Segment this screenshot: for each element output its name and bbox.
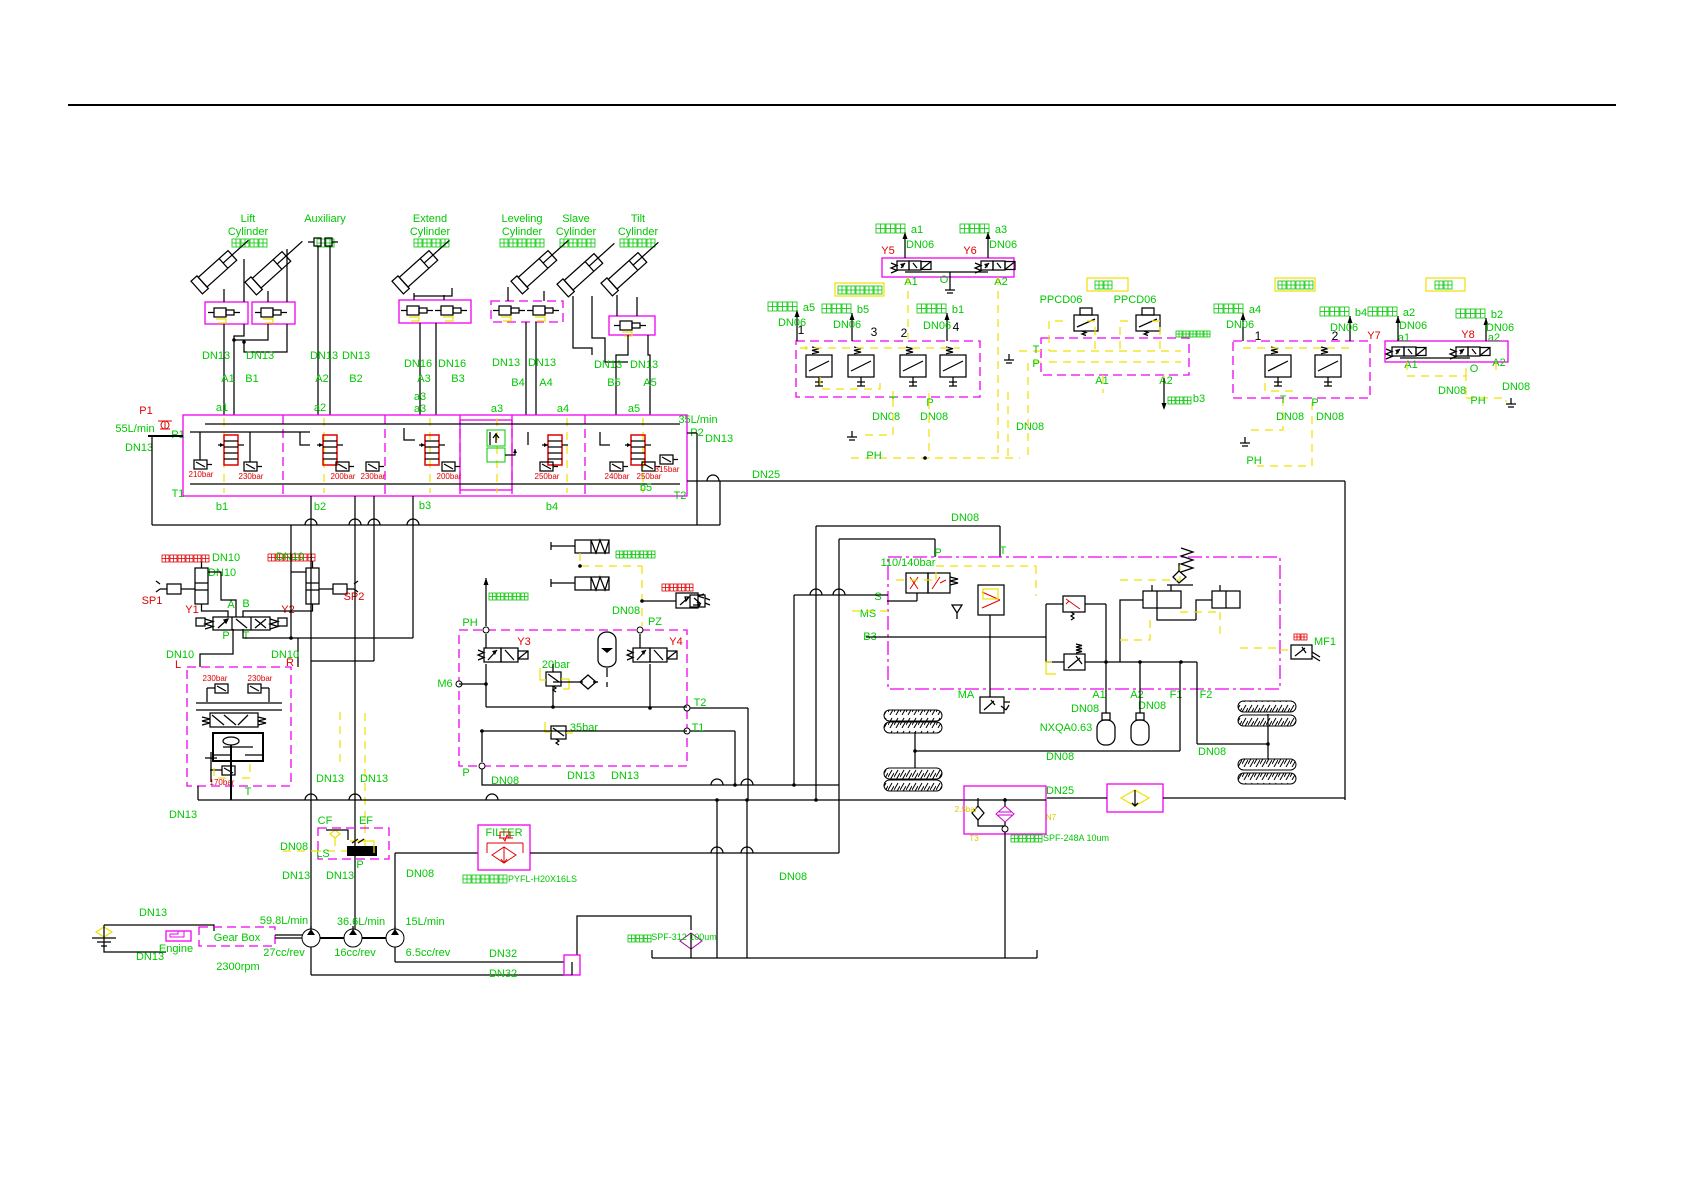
- solenoid Y6: [981, 261, 993, 270]
- prop valve 4: [940, 355, 966, 377]
- svg-text:DN10: DN10: [212, 552, 240, 564]
- svg-text:A1: A1: [904, 276, 917, 288]
- P1 inlet symbol: [158, 421, 172, 429]
- svg-text:b3: b3: [419, 500, 431, 512]
- MA test valve: [980, 697, 1004, 713]
- accumulator A1: [1102, 713, 1110, 720]
- svg-text:a3: a3: [995, 224, 1007, 236]
- svg-text:M6: M6: [437, 678, 452, 690]
- svg-text:PPCD06: PPCD06: [1114, 294, 1157, 306]
- svg-text:FILTER: FILTER: [485, 827, 522, 839]
- svg-text:a4: a4: [1249, 304, 1261, 316]
- svg-text:2.5bar: 2.5bar: [955, 805, 978, 814]
- svg-text:DN13: DN13: [125, 442, 153, 454]
- clutch pistons and spring: [1167, 563, 1193, 585]
- svg-text:DN06: DN06: [833, 319, 861, 331]
- transmission reliefs: [1063, 596, 1085, 612]
- svg-text:MS: MS: [860, 608, 877, 620]
- label CJK tilt: [620, 239, 628, 247]
- slave cylinder: [557, 237, 620, 296]
- label second stage valve: [1176, 331, 1182, 337]
- Y7Y8 yellow drains: [1407, 362, 1496, 398]
- svg-text:210bar: 210bar: [189, 470, 214, 479]
- yellow label box attachment: [1426, 278, 1465, 291]
- svg-text:Leveling: Leveling: [502, 213, 543, 225]
- DN08 brake line right: [1197, 743, 1268, 745]
- svg-text:Cylinder: Cylinder: [410, 226, 451, 238]
- svg-text:250bar: 250bar: [535, 472, 560, 481]
- svg-text:b1: b1: [952, 304, 964, 316]
- svg-text:A5: A5: [643, 377, 656, 389]
- brake valve box: [459, 630, 687, 766]
- svg-text:DN08: DN08: [1016, 421, 1044, 433]
- steering cylinder right: [306, 568, 319, 604]
- leveling cylinder: [511, 234, 574, 293]
- svg-text:A2: A2: [315, 373, 328, 385]
- svg-text:T: T: [1280, 394, 1287, 406]
- steering supply drop: [290, 525, 292, 638]
- svg-text:T: T: [243, 630, 250, 642]
- return drop A: [716, 800, 718, 958]
- svg-text:Y2: Y2: [281, 604, 294, 616]
- mid section green component: [487, 430, 505, 446]
- svg-text:O: O: [1470, 363, 1479, 375]
- prop valve 1: [806, 355, 832, 377]
- svg-text:DN13: DN13: [567, 770, 595, 782]
- pump 2: [344, 929, 362, 947]
- svg-text:T2: T2: [674, 490, 687, 502]
- wire lift A1/B1: [223, 289, 225, 302]
- modulating valve pair red: [906, 573, 950, 593]
- label rear steer cyl CJK red: [162, 555, 169, 562]
- steering T line: [373, 496, 375, 661]
- cluster internal yellow wiring: [805, 346, 807, 350]
- shift selector valve: [978, 585, 1004, 615]
- svg-text:A2: A2: [1159, 375, 1172, 387]
- svg-text:F2: F2: [1200, 689, 1213, 701]
- P/T lines down from steering valve: [200, 629, 233, 667]
- svg-text:110/140bar: 110/140bar: [881, 557, 936, 569]
- Y4 valve: [633, 648, 650, 662]
- svg-text:T2: T2: [694, 697, 707, 709]
- steering block magenta box: [187, 667, 291, 786]
- SP2 shuttle glyph: [324, 581, 358, 594]
- LS yellow line: [283, 850, 318, 852]
- upper feed rectangle: [816, 525, 1000, 527]
- svg-text:a2: a2: [314, 402, 326, 414]
- svg-text:Y6: Y6: [963, 245, 976, 257]
- svg-text:N7: N7: [1046, 813, 1057, 822]
- svg-text:DN06: DN06: [1486, 322, 1514, 334]
- svg-text:a5: a5: [803, 302, 815, 314]
- yellow label box frame leveling: [1275, 278, 1315, 291]
- accumulator small: [598, 632, 616, 667]
- svg-text:35L/min: 35L/min: [678, 414, 717, 426]
- svg-text:MF1: MF1: [1314, 636, 1336, 648]
- brake cylinders: [575, 540, 609, 553]
- extend cylinder: [392, 234, 455, 293]
- svg-text:20bar: 20bar: [542, 659, 570, 671]
- svg-text:P1: P1: [139, 405, 152, 417]
- engine box: [166, 931, 191, 941]
- svg-text:36.6L/min: 36.6L/min: [337, 916, 385, 928]
- wheels right: [1238, 701, 1296, 712]
- svg-text:DN06: DN06: [923, 320, 951, 332]
- svg-text:230bar: 230bar: [239, 472, 264, 481]
- label CJK leveling: [500, 239, 508, 247]
- brake internal wiring: [485, 634, 487, 648]
- svg-text:DN08: DN08: [951, 512, 979, 524]
- svg-text:A1: A1: [1404, 359, 1417, 371]
- steering R line: [412, 496, 414, 638]
- svg-text:a1: a1: [911, 224, 923, 236]
- small check: [952, 605, 962, 619]
- accumulator A2: [1136, 713, 1144, 720]
- ports A1 A2 F1 F2: [1085, 661, 1197, 663]
- FILTER box: [478, 825, 530, 870]
- priority spool: [210, 713, 258, 727]
- brake P DN08 and T lines: [482, 769, 839, 785]
- svg-text:b1: b1: [216, 501, 228, 513]
- svg-text:B3: B3: [451, 373, 464, 385]
- svg-text:DN13: DN13: [705, 433, 733, 445]
- section relief valves (small): [194, 460, 207, 469]
- svg-text:DN08: DN08: [1071, 703, 1099, 715]
- DN08 brake line left: [915, 750, 1180, 752]
- svg-text:DN13: DN13: [169, 809, 197, 821]
- svg-text:SPF-312 100um: SPF-312 100um: [651, 932, 717, 942]
- svg-text:SP2: SP2: [344, 591, 365, 603]
- svg-text:b4: b4: [1355, 307, 1367, 319]
- svg-text:Y7: Y7: [1367, 330, 1380, 342]
- label suction strainer CJK: [628, 935, 635, 942]
- pump1 DN13 line: [310, 496, 312, 929]
- svg-text:Extend: Extend: [413, 213, 447, 225]
- label a1 remote: [876, 224, 885, 233]
- yellow pilot from steering block: [318, 713, 365, 851]
- pilot caps yellow: [223, 418, 225, 493]
- svg-text:a3: a3: [414, 403, 426, 415]
- pilot handle arrow: [485, 578, 487, 626]
- F1 drop: [1179, 662, 1181, 751]
- svg-text:Tilt: Tilt: [631, 213, 645, 225]
- bottom tank line: [652, 957, 1037, 959]
- svg-text:Y4: Y4: [669, 636, 682, 648]
- svg-text:DN13: DN13: [611, 770, 639, 782]
- svg-text:DN08: DN08: [779, 871, 807, 883]
- wheels left: [884, 710, 942, 721]
- svg-text:315bar: 315bar: [655, 465, 680, 474]
- 20bar relief: [546, 672, 561, 686]
- wire auxiliary: [308, 238, 338, 246]
- svg-text:A3: A3: [417, 373, 430, 385]
- P2 riser: [696, 433, 698, 525]
- svg-text:Cylinder: Cylinder: [556, 226, 597, 238]
- 35bar relief: [551, 726, 566, 739]
- svg-text:Cylinder: Cylinder: [502, 226, 543, 238]
- svg-text:SPF-248A 10um: SPF-248A 10um: [1043, 833, 1109, 843]
- T/P mid horizontal y=525: [152, 524, 720, 526]
- svg-text:PH: PH: [1470, 395, 1485, 407]
- svg-text:DN08: DN08: [612, 605, 640, 617]
- tank loop: [104, 925, 214, 931]
- svg-text:DN08: DN08: [1502, 381, 1530, 393]
- B3 line: [866, 636, 1046, 638]
- wire extend A3/B3: [413, 293, 415, 300]
- svg-text:T1: T1: [172, 488, 185, 500]
- makeup check box: [1107, 784, 1163, 812]
- priority CF/EF valve box: [318, 828, 389, 859]
- svg-text:DN08: DN08: [1198, 746, 1226, 758]
- svg-text:DN32: DN32: [489, 948, 517, 960]
- main control valve manifold outline: [183, 415, 687, 496]
- Y3 valve: [484, 648, 501, 662]
- svg-text:T: T: [245, 786, 252, 798]
- PPCD06 box: [1041, 338, 1189, 375]
- svg-text:3: 3: [871, 325, 878, 339]
- SP1 shuttle glyph: [156, 581, 190, 594]
- svg-text:DN06: DN06: [906, 239, 934, 251]
- gear box: [199, 927, 275, 946]
- svg-text:DN13: DN13: [202, 350, 230, 362]
- DN25 return header: [687, 480, 1345, 482]
- svg-text:1: 1: [1255, 329, 1262, 343]
- svg-text:PPCD06: PPCD06: [1040, 294, 1083, 306]
- PPCD06 yellow piping: [1015, 351, 1041, 455]
- svg-text:PH: PH: [1246, 455, 1261, 467]
- svg-text:S: S: [874, 591, 881, 603]
- svg-text:P: P: [462, 767, 469, 779]
- remote cluster 4 proportional valves: [796, 341, 980, 397]
- svg-text:230bar: 230bar: [361, 472, 386, 481]
- svg-text:DN06: DN06: [1330, 322, 1358, 334]
- svg-text:DN10: DN10: [276, 551, 304, 563]
- pump3 riser: [394, 853, 396, 929]
- svg-text:DN13: DN13: [326, 870, 354, 882]
- label return filter CJK: [1011, 835, 1018, 842]
- svg-text:L: L: [175, 659, 181, 671]
- svg-text:Cylinder: Cylinder: [618, 226, 659, 238]
- svg-text:DN08: DN08: [872, 411, 900, 423]
- drain O of Y5Y6: [949, 272, 951, 284]
- steering cylinder left: [195, 568, 208, 604]
- svg-text:P: P: [1032, 358, 1039, 370]
- svg-text:PZ: PZ: [648, 616, 662, 628]
- svg-text:T: T: [1033, 344, 1040, 356]
- label CJK extend: [414, 239, 422, 247]
- svg-text:2300rpm: 2300rpm: [216, 961, 259, 973]
- svg-text:A1: A1: [1095, 375, 1108, 387]
- svg-text:P: P: [1311, 397, 1318, 409]
- transmission magenta box: [888, 557, 1280, 689]
- pilot valve Y7/Y8 box: [1385, 341, 1508, 362]
- MA valve: [1046, 637, 1064, 662]
- main return line y=800: [197, 786, 199, 800]
- svg-text:Y3: Y3: [517, 636, 530, 648]
- svg-text:DN13: DN13: [310, 350, 338, 362]
- svg-text:a1: a1: [1398, 332, 1410, 344]
- lower block glyphs: [213, 733, 263, 761]
- svg-text:A1: A1: [221, 373, 234, 385]
- svg-text:DN16: DN16: [404, 358, 432, 370]
- svg-text:DN25: DN25: [752, 469, 780, 481]
- svg-text:DN08: DN08: [1046, 751, 1074, 763]
- manifold internal connection lines: [205, 423, 680, 425]
- spools: [224, 435, 238, 465]
- svg-text:P: P: [356, 859, 363, 871]
- svg-text:PH: PH: [462, 617, 477, 629]
- pump 3: [386, 929, 404, 947]
- svg-text:DN08: DN08: [406, 868, 434, 880]
- yellow label box lifting: [1087, 278, 1128, 291]
- twin relief glyphs: [215, 684, 261, 693]
- svg-text:a3: a3: [491, 403, 503, 415]
- svg-text:Cylinder: Cylinder: [228, 226, 269, 238]
- svg-text:a4: a4: [557, 403, 569, 415]
- PH pilot line top right: [851, 457, 1020, 459]
- tank symbol: [92, 938, 116, 946]
- svg-text:200bar: 200bar: [437, 472, 462, 481]
- svg-text:DN13: DN13: [316, 773, 344, 785]
- svg-text:Slave: Slave: [562, 213, 590, 225]
- svg-text:b5: b5: [640, 482, 652, 494]
- pump2 DN13 line: [354, 496, 356, 929]
- transmission internal black wiring: [1046, 603, 1063, 605]
- svg-text:B: B: [242, 598, 249, 610]
- top border rule: [68, 104, 1616, 106]
- transmission yellow pilot: [896, 566, 1036, 596]
- svg-text:DN08: DN08: [1316, 411, 1344, 423]
- svg-text:DN13: DN13: [246, 350, 274, 362]
- svg-text:Lift: Lift: [241, 213, 256, 225]
- S line: [794, 594, 888, 596]
- lift cylinder 2: [245, 235, 308, 294]
- DN32 lines: [394, 947, 396, 962]
- wire leveling A4/B4: [507, 287, 509, 301]
- svg-text:T: T: [1000, 545, 1007, 557]
- svg-text:B5: B5: [607, 377, 620, 389]
- svg-text:15L/min: 15L/min: [405, 916, 444, 928]
- svg-text:DN10: DN10: [271, 649, 299, 661]
- tilt cylinder: [601, 236, 664, 295]
- svg-text:230bar: 230bar: [248, 674, 273, 683]
- svg-text:a1: a1: [216, 402, 228, 414]
- svg-text:Y1: Y1: [185, 604, 198, 616]
- T to DN25 riser: [719, 481, 721, 525]
- svg-text:b4: b4: [546, 501, 558, 513]
- svg-text:6.5cc/rev: 6.5cc/rev: [406, 947, 451, 959]
- balance valve box lift A: [205, 302, 248, 324]
- svg-text:MA: MA: [958, 689, 975, 701]
- svg-text:Engine: Engine: [159, 943, 193, 955]
- label CJK slave: [560, 239, 568, 247]
- svg-text:DN16: DN16: [438, 358, 466, 370]
- svg-text:A: A: [227, 599, 235, 611]
- svg-text:Gear Box: Gear Box: [214, 932, 261, 944]
- svg-text:DN13: DN13: [139, 907, 167, 919]
- svg-text:A4: A4: [539, 377, 552, 389]
- manifold section dividers: [282, 415, 284, 496]
- svg-text:35bar: 35bar: [570, 722, 598, 734]
- F2 drop: [1196, 662, 1198, 744]
- svg-text:T3: T3: [969, 834, 979, 843]
- svg-text:DN06: DN06: [989, 239, 1017, 251]
- svg-text:b2: b2: [1491, 309, 1503, 321]
- svg-text:T1: T1: [692, 722, 705, 734]
- svg-text:DN13: DN13: [630, 359, 658, 371]
- svg-text:b3: b3: [1193, 393, 1205, 405]
- small pilot valve near S line: [690, 595, 705, 607]
- check valve: [580, 675, 596, 689]
- svg-text:230bar: 230bar: [203, 674, 228, 683]
- yellow label box fork+luffing: [835, 283, 884, 296]
- svg-text:PYFL-H20X16LS: PYFL-H20X16LS: [508, 874, 577, 884]
- svg-text:DN08: DN08: [1138, 700, 1166, 712]
- svg-text:DN13: DN13: [594, 359, 622, 371]
- tank drop: [1004, 832, 1006, 958]
- svg-text:DN06: DN06: [1399, 320, 1427, 332]
- svg-text:CF: CF: [318, 815, 333, 827]
- svg-text:DN08: DN08: [1276, 411, 1304, 423]
- prop valve 3: [900, 355, 926, 377]
- svg-text:Auxiliary: Auxiliary: [304, 213, 346, 225]
- svg-text:DN10: DN10: [208, 567, 236, 579]
- balance valve box tilt: [609, 316, 655, 335]
- return filter box: [964, 786, 1046, 834]
- svg-text:PH: PH: [866, 450, 881, 462]
- svg-text:a3: a3: [414, 391, 426, 403]
- svg-text:b5: b5: [857, 304, 869, 316]
- pump 1: [302, 929, 320, 947]
- svg-text:27cc/rev: 27cc/rev: [263, 947, 305, 959]
- svg-text:DN25: DN25: [1046, 785, 1074, 797]
- svg-text:B4: B4: [511, 377, 524, 389]
- suction strainer SPF-312: [577, 916, 691, 955]
- svg-text:P: P: [222, 630, 229, 642]
- svg-text:DN06: DN06: [778, 317, 806, 329]
- svg-text:DN13: DN13: [282, 870, 310, 882]
- pilot valve Y5/Y6 box: [882, 258, 1014, 277]
- svg-text:59.8L/min: 59.8L/min: [260, 915, 308, 927]
- return drop B: [746, 800, 748, 958]
- svg-text:P: P: [926, 397, 933, 409]
- svg-text:O: O: [940, 274, 949, 286]
- label front steer cyl CJK red: [268, 554, 275, 561]
- balance valve box lift B: [252, 302, 295, 324]
- filter output: [530, 852, 839, 854]
- svg-text:B1: B1: [245, 373, 258, 385]
- P-test valve: [642, 600, 676, 602]
- svg-text:DN08: DN08: [920, 411, 948, 423]
- prop valve 2: [848, 355, 874, 377]
- P1 riser: [151, 436, 153, 525]
- svg-text:EF: EF: [359, 815, 373, 827]
- svg-text:B2: B2: [349, 373, 362, 385]
- svg-text:A2: A2: [1492, 357, 1505, 369]
- svg-text:a2: a2: [1403, 307, 1415, 319]
- frame leveling valve box: [1233, 341, 1370, 398]
- svg-text:A1: A1: [1092, 689, 1105, 701]
- svg-text:b2: b2: [314, 501, 326, 513]
- svg-text:NXQA0.63: NXQA0.63: [1040, 722, 1093, 734]
- svg-text:DN08: DN08: [491, 775, 519, 787]
- DN25 drop right: [1344, 481, 1346, 800]
- svg-text:A2: A2: [994, 276, 1007, 288]
- label CJK aux: [317, 239, 325, 247]
- svg-text:a5: a5: [628, 403, 640, 415]
- balance valve box extend: [399, 300, 471, 323]
- svg-text:Y5: Y5: [881, 245, 894, 257]
